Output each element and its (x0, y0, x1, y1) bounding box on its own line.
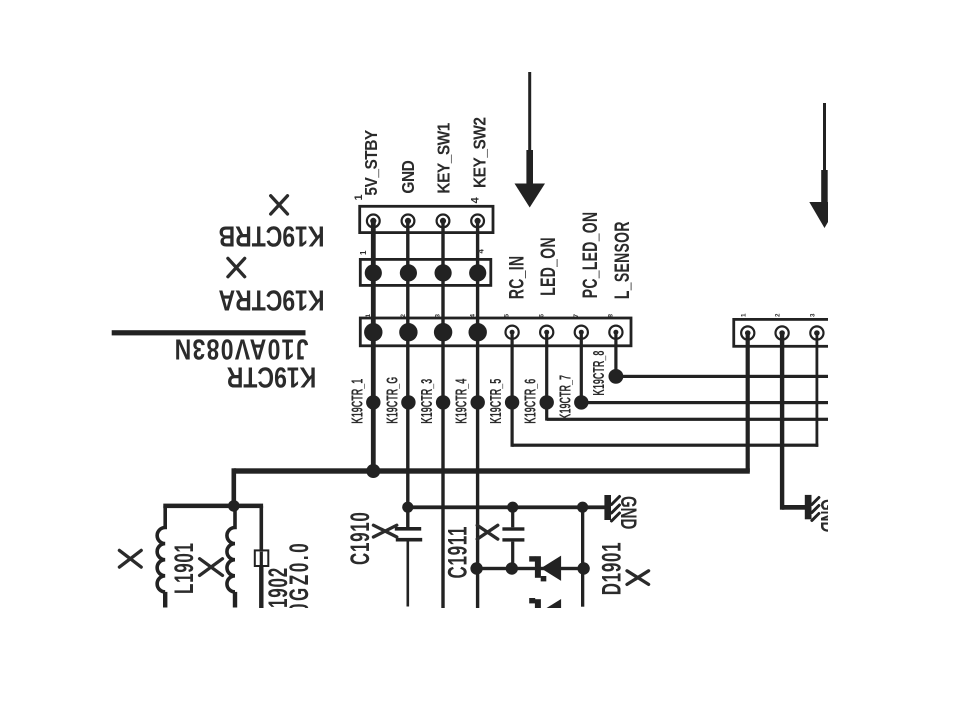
svg-text:KEY_SW2: KEY_SW2 (469, 117, 489, 188)
svg-text:K19CTR_G: K19CTR_G (384, 377, 401, 424)
svg-text:K19CTR_5: K19CTR_5 (488, 379, 505, 424)
svg-text:KEY_SW1: KEY_SW1 (433, 123, 453, 194)
svg-text:0GZ0.0: 0GZ0.0 (283, 541, 314, 613)
svg-text:1: 1 (740, 313, 747, 317)
svg-text:RC_IN: RC_IN (503, 256, 528, 299)
svg-text:K19CTR_4: K19CTR_4 (453, 379, 470, 424)
svg-text:3: 3 (810, 313, 817, 317)
svg-text:K19CTR_8: K19CTR_8 (590, 351, 607, 396)
svg-text:4: 4 (469, 314, 476, 318)
svg-text:D1901: D1901 (595, 542, 626, 596)
svg-text:7: 7 (573, 314, 580, 318)
svg-text:PC_LED_ON: PC_LED_ON (577, 212, 602, 299)
svg-text:5V_STBY: 5V_STBY (361, 130, 381, 196)
svg-text:3: 3 (435, 314, 442, 318)
svg-text:K19CTRA: K19CTRA (218, 284, 324, 317)
svg-text:6: 6 (538, 314, 545, 318)
svg-text:4: 4 (477, 249, 486, 254)
svg-text:L_SENSOR: L_SENSOR (609, 221, 634, 299)
svg-text:1: 1 (353, 194, 365, 200)
svg-text:5: 5 (504, 314, 511, 318)
svg-text:K19CTR_7: K19CTR_7 (557, 375, 574, 420)
svg-text:8: 8 (608, 314, 615, 318)
svg-text:K19CTRB: K19CTRB (218, 220, 324, 253)
svg-text:GND: GND (615, 496, 640, 529)
svg-text:K19CTR_3: K19CTR_3 (419, 379, 436, 424)
svg-text:C1910: C1910 (344, 511, 375, 565)
svg-text:GND: GND (398, 160, 418, 193)
svg-text:K19CTR: K19CTR (227, 361, 317, 394)
svg-text:L1901: L1901 (168, 542, 199, 594)
svg-text:2: 2 (400, 314, 407, 318)
svg-text:4: 4 (469, 196, 481, 203)
svg-text:K19CTR_1: K19CTR_1 (349, 379, 366, 424)
svg-text:LED_ON: LED_ON (535, 237, 560, 296)
svg-text:K19CTR_6: K19CTR_6 (522, 379, 539, 424)
svg-text:2: 2 (775, 313, 782, 317)
svg-text:1: 1 (365, 314, 372, 318)
svg-text:C1911: C1911 (441, 526, 472, 579)
svg-text:1: 1 (359, 250, 368, 255)
